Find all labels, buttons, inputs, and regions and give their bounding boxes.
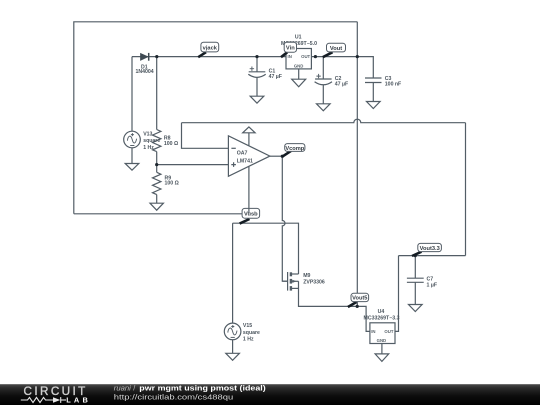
svg-text:1 µF: 1 µF	[427, 283, 437, 289]
svg-text:/: /	[133, 383, 135, 392]
svg-text:100 nF: 100 nF	[385, 81, 401, 87]
svg-text:100 Ω: 100 Ω	[165, 181, 179, 187]
svg-text:pwr mgmt using pmost (ideal): pwr mgmt using pmost (ideal)	[139, 383, 266, 392]
svg-text:LAB: LAB	[66, 396, 91, 405]
svg-text:V15: V15	[243, 323, 252, 329]
svg-text:1 Hz: 1 Hz	[243, 336, 254, 342]
svg-text:OA7: OA7	[237, 151, 248, 157]
svg-text:ruani: ruani	[114, 383, 131, 392]
svg-text:GND: GND	[377, 338, 387, 343]
svg-text:100 Ω: 100 Ω	[164, 141, 178, 147]
svg-text:U1: U1	[295, 34, 302, 40]
svg-text:M9: M9	[303, 273, 310, 279]
svg-text:1 Hz: 1 Hz	[143, 145, 154, 151]
svg-text:1N4004: 1N4004	[136, 69, 154, 75]
svg-text:OUT: OUT	[301, 54, 310, 59]
svg-text:square: square	[143, 138, 160, 144]
svg-text:Vout: Vout	[330, 46, 342, 52]
svg-text:LM741: LM741	[237, 158, 253, 164]
svg-text:OUT: OUT	[384, 329, 393, 334]
svg-text:Vcomp: Vcomp	[285, 146, 304, 152]
svg-text:MC33269T−3.3: MC33269T−3.3	[364, 316, 400, 322]
svg-text:U4: U4	[378, 309, 385, 315]
svg-text:IN: IN	[371, 329, 375, 334]
svg-text:ZVP3306: ZVP3306	[303, 280, 325, 286]
svg-text:Vout5: Vout5	[352, 296, 367, 302]
svg-text:Vout3.3: Vout3.3	[420, 246, 440, 252]
svg-text:47 µF: 47 µF	[269, 74, 282, 80]
svg-text:GND: GND	[294, 64, 304, 69]
svg-text:Vin: Vin	[286, 46, 295, 52]
svg-text:47 µF: 47 µF	[335, 81, 348, 87]
svg-text:V13: V13	[143, 131, 152, 137]
svg-text:http://circuitlab.com/cs488qu: http://circuitlab.com/cs488qu	[114, 392, 233, 401]
svg-text:IN: IN	[288, 54, 292, 59]
svg-text:square: square	[243, 330, 260, 336]
svg-text:Vusb: Vusb	[244, 212, 258, 218]
svg-text:vjack: vjack	[203, 45, 218, 51]
